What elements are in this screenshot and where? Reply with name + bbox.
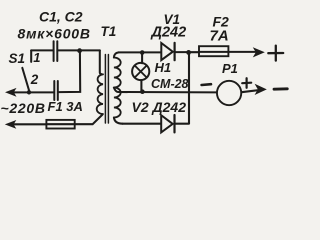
- node lamp top dot: [140, 50, 145, 55]
- node bus top dot: [186, 50, 191, 55]
- wire node A to transformer: [80, 49, 100, 51]
- transformer T1 primary winding: [100, 50, 102, 74]
- paper background: [0, 0, 291, 142]
- svg-text:F1 3А: F1 3А: [48, 99, 83, 114]
- diode V2: [161, 115, 173, 132]
- node A junction dot: [77, 48, 82, 53]
- svg-text:Н1: Н1: [155, 60, 172, 75]
- wire secondary bottom to diode V2: [123, 123, 161, 125]
- wire C1 to node A: [58, 49, 79, 51]
- fuse F2: [199, 46, 228, 56]
- svg-text:2: 2: [30, 72, 39, 87]
- arrow plus output: [253, 47, 265, 57]
- wire top branch (contact1 to C1): [31, 49, 52, 51]
- svg-text:Р1: Р1: [222, 61, 238, 76]
- diode V1: [161, 43, 173, 60]
- svg-text:1: 1: [33, 50, 40, 65]
- wire riser node A down to C2 branch: [59, 51, 80, 92]
- wire mains line2 (arrow to fuse F1): [14, 123, 46, 125]
- plus sign right of meter: [242, 82, 251, 85]
- svg-text:~220В: ~220В: [1, 100, 46, 116]
- capacitor C2: [53, 81, 55, 100]
- meter P1: [217, 81, 241, 105]
- svg-text:8мк×600В: 8мк×600В: [18, 25, 91, 41]
- lamp H1 bottom stub: [140, 80, 142, 91]
- plus sign top output: [268, 52, 283, 55]
- wire meter to minus output: [242, 90, 259, 92]
- wire secondary top to diode V1: [119, 51, 161, 53]
- transformer T1 secondary winding: [114, 52, 119, 57]
- arrow mains line2: [5, 120, 16, 129]
- lamp H1: [132, 63, 149, 80]
- minus sign far right output: [274, 87, 287, 90]
- wire bus to fuse F2: [189, 51, 199, 53]
- node contact 2 dot: [27, 90, 31, 94]
- svg-text:V2 Д242: V2 Д242: [132, 99, 187, 115]
- svg-text:Д242: Д242: [150, 24, 187, 40]
- svg-text:С1, С2: С1, С2: [39, 9, 83, 25]
- switch S1 contact stub: [30, 50, 32, 62]
- arrow minus output: [255, 84, 267, 95]
- switch S1 lever: [22, 68, 29, 92]
- wire F2 to plus output: [228, 51, 256, 53]
- lamp H1 top stub: [141, 54, 143, 64]
- fuse F1: [46, 120, 74, 129]
- svg-text:7А: 7А: [210, 28, 229, 45]
- wire F1 to transformer primary bottom: [75, 115, 103, 125]
- minus sign left of meter: [202, 83, 211, 86]
- node lamp bottom dot: [140, 89, 145, 94]
- transformer T1 core: [104, 55, 106, 124]
- svg-text:Т1: Т1: [101, 24, 117, 39]
- wire mains line1 (arrow to C2): [12, 91, 53, 93]
- arrow mains line1: [5, 88, 17, 97]
- wire secondary center tap to meter: [114, 88, 217, 93]
- capacitor C1: [53, 41, 55, 61]
- wire cathode bus: [188, 52, 190, 123]
- svg-text:S1: S1: [9, 51, 26, 66]
- svg-text:СМ-28: СМ-28: [151, 77, 189, 91]
